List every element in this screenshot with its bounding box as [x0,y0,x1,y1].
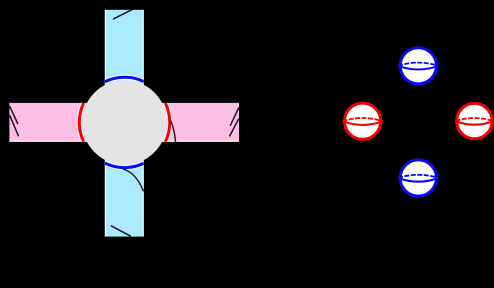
blue arc, bottom of disk [105,163,144,168]
tick mark, bottom of cyan band [111,226,131,237]
pointer curve from right red arc [171,120,176,142]
sphere, bottom (blue) [398,160,438,196]
sphere, left (red) [342,103,382,139]
double tick marks, left end of pink band [10,106,19,136]
sphere, top (blue) [398,48,438,84]
central gray disk [82,80,167,165]
horizontal band (pink) [9,103,239,142]
blue arc, top of disk [105,77,144,167]
pointer curve from bottom blue arc [123,169,144,192]
white fringes under the blue arcs (clipped to cyan band) [105,77,144,167]
pink band bottom edge highlight [9,140,239,142]
red arc, right side of disk [165,103,169,142]
red arc, left side of disk [79,103,169,142]
cyan band edge highlights [105,10,107,237]
white fringes under the red arcs (clipped to pink band) [79,103,169,142]
double tick marks, right end of pink band [229,108,239,137]
tick mark, top of cyan band [113,9,133,19]
vertical band (cyan) [105,10,144,237]
sphere, right (red) [455,103,493,138]
